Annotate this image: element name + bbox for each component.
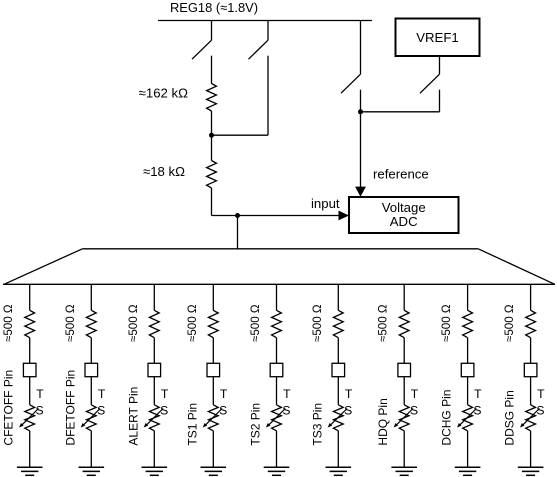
- wire node A to R2: [211, 135, 213, 160]
- resistor R3 value ~500 Ohm (CFETOFF): [25, 310, 35, 337]
- svg-text:≈500 Ω: ≈500 Ω: [127, 304, 140, 342]
- wire reference to ADC: [360, 112, 362, 187]
- pin label T (DDSG): [537, 387, 545, 401]
- svg-text:≈500 Ω: ≈500 Ω: [503, 304, 516, 342]
- wire mux fan-out left diagonal: [4, 249, 82, 284]
- resistor R9 value ~500 Ohm (HDQ): [399, 310, 409, 337]
- pin label T (TS2): [283, 387, 291, 401]
- svg-text:CFETOFF Pin: CFETOFF Pin: [2, 370, 16, 446]
- ground symbol (TS1): [201, 467, 227, 475]
- thermistor TS8 (DCHG): [457, 405, 476, 431]
- pin name label CFETOFF Pin: [2, 370, 16, 446]
- wire thermistor to ground (TS2): [276, 431, 278, 467]
- svg-text:≈500 Ω: ≈500 Ω: [440, 304, 453, 342]
- svg-text:T: T: [161, 387, 169, 401]
- block VREF1: [396, 19, 480, 57]
- pin label S (TS1): [219, 404, 227, 418]
- value label 500 Ohm (TS2): [249, 304, 262, 342]
- wire mux fan-out right diagonal: [478, 249, 555, 284]
- value label 500 Ohm (DCHG): [440, 304, 453, 342]
- svg-text:T: T: [220, 387, 228, 401]
- reference arrowhead: [355, 187, 366, 197]
- wire box to thermistor (HDQ): [403, 377, 405, 405]
- svg-text:HDQ Pin: HDQ Pin: [376, 398, 390, 445]
- thermistor TS3 (ALERT): [144, 405, 163, 431]
- wire box to thermistor (DCHG): [467, 377, 469, 405]
- wire bus to R11: [530, 284, 532, 310]
- svg-text:TS2 Pin: TS2 Pin: [249, 403, 263, 446]
- thermistor TS6 (TS3): [328, 405, 347, 431]
- wire R4 to box (DFETOFF): [90, 338, 92, 364]
- wire R3 to box (CFETOFF): [29, 338, 31, 364]
- wire R8 to box (TS3): [337, 338, 339, 364]
- wire box to thermistor (TS2): [276, 377, 278, 405]
- pin label S (DFETOFF): [97, 404, 105, 418]
- value label 500 Ohm (DDSG): [503, 304, 516, 342]
- ground symbol (TS2): [264, 467, 290, 475]
- svg-text:T: T: [537, 387, 545, 401]
- svg-text:reference: reference: [373, 167, 429, 182]
- pin label S (ALERT): [160, 404, 168, 418]
- value label 162 kOhm: [139, 86, 188, 101]
- pin label T (DCHG): [474, 387, 482, 401]
- resistor R1 value ~162 kOhm: [207, 84, 217, 112]
- wire SW4 leg to node C: [361, 111, 440, 113]
- box ESD cell (CFETOFF): [23, 363, 36, 376]
- svg-text:T: T: [411, 387, 419, 401]
- wire bus to R6: [212, 284, 214, 310]
- value label 500 Ohm (CFETOFF): [2, 304, 15, 342]
- svg-text:≈500 Ω: ≈500 Ω: [2, 304, 15, 342]
- svg-text:≈500 Ω: ≈500 Ω: [311, 304, 324, 342]
- value label 500 Ohm (DFETOFF): [64, 304, 77, 342]
- wire R5 to box (ALERT): [153, 338, 155, 364]
- svg-text:Voltage: Voltage: [382, 200, 426, 215]
- resistor R8 value ~500 Ohm (TS3): [333, 310, 343, 337]
- wire R2 to input line: [211, 188, 213, 216]
- resistor R6 value ~500 Ohm (TS1): [208, 310, 218, 337]
- pin label T (TS3): [345, 387, 353, 401]
- svg-text:T: T: [283, 387, 291, 401]
- value label 500 Ohm (TS1): [186, 304, 199, 342]
- svg-text:≈500 Ω: ≈500 Ω: [64, 304, 77, 342]
- svg-text:S: S: [344, 404, 352, 418]
- wire thermistor to ground (DFETOFF): [90, 431, 92, 467]
- svg-text:S: S: [36, 404, 44, 418]
- wire R9 to box (HDQ): [403, 338, 405, 364]
- svg-text:input: input: [311, 196, 340, 211]
- input arrowhead: [339, 211, 350, 221]
- svg-text:DCHG Pin: DCHG Pin: [440, 390, 454, 446]
- svg-text:ADC: ADC: [390, 214, 418, 229]
- svg-text:≈500 Ω: ≈500 Ω: [186, 304, 199, 342]
- block U1 Voltage ADC: [349, 197, 459, 233]
- value label 500 Ohm (HDQ): [377, 304, 390, 342]
- wire thermistor to ground (DDSG): [530, 431, 532, 467]
- wire R1 to node A: [211, 111, 213, 135]
- wire bus to R4: [90, 284, 92, 310]
- box ESD cell (DFETOFF): [85, 363, 98, 376]
- svg-text:TS3 Pin: TS3 Pin: [310, 403, 324, 446]
- node B junction (input to mux bus): [235, 213, 240, 218]
- switch SW1 (REG18 to 162k divider): [192, 21, 212, 60]
- wire R7 to box (TS2): [276, 338, 278, 364]
- wire bus to R5: [153, 284, 155, 310]
- pin label T (HDQ): [411, 387, 419, 401]
- wire thermistor to ground (DCHG): [467, 431, 469, 467]
- svg-text:S: S: [410, 404, 418, 418]
- svg-text:REG18 (≈1.8V): REG18 (≈1.8V): [170, 0, 258, 15]
- pin label T (ALERT): [161, 387, 169, 401]
- wire thermistor to ground (TS3): [337, 431, 339, 467]
- pin label S (DDSG): [536, 404, 544, 418]
- ground symbol (DFETOFF): [79, 467, 105, 475]
- net label REG18 (~1.8V): [170, 0, 258, 15]
- svg-text:VREF1: VREF1: [416, 30, 459, 45]
- svg-text:S: S: [282, 404, 290, 418]
- svg-text:≈162 kΩ: ≈162 kΩ: [139, 86, 188, 101]
- wire SW2 down: [267, 56, 269, 136]
- switch SW4 (VREF1 to reference node): [420, 74, 440, 93]
- pin name label TS1 Pin: [185, 403, 199, 446]
- pin label T (DFETOFF): [98, 387, 106, 401]
- svg-text:DFETOFF Pin: DFETOFF Pin: [63, 370, 77, 446]
- resistor R2 value ~18 kOhm: [207, 161, 217, 189]
- resistor R10 value ~500 Ohm (DCHG): [463, 310, 473, 337]
- wire thermistor to ground (ALERT): [153, 431, 155, 467]
- pin name label DDSG Pin: [503, 390, 517, 445]
- svg-text:≈500 Ω: ≈500 Ω: [377, 304, 390, 342]
- svg-text:S: S: [160, 404, 168, 418]
- wire thermistor to ground (HDQ): [403, 431, 405, 467]
- switch SW2 (REG18 second leg): [249, 21, 269, 60]
- wire node B to mux bus: [237, 216, 239, 249]
- pin name label TS2 Pin: [249, 403, 263, 446]
- box ESD cell (HDQ): [398, 363, 411, 376]
- pin label S (CFETOFF): [36, 404, 44, 418]
- svg-text:T: T: [474, 387, 482, 401]
- svg-text:S: S: [473, 404, 481, 418]
- pin label T (CFETOFF): [36, 387, 44, 401]
- wire SW3 to node C: [360, 90, 362, 112]
- wire box to thermistor (CFETOFF): [29, 377, 31, 405]
- svg-text:S: S: [536, 404, 544, 418]
- resistor R4 value ~500 Ohm (DFETOFF): [86, 310, 96, 337]
- pin name label TS3 Pin: [310, 403, 324, 446]
- pin label T (TS1): [220, 387, 228, 401]
- svg-text:T: T: [36, 387, 44, 401]
- wire mux fan-out top edge: [82, 248, 478, 250]
- thermistor TS5 (TS2): [266, 405, 285, 431]
- box ESD cell (TS2): [270, 363, 283, 376]
- wire mux bus bottom edge: [3, 283, 555, 285]
- pin name label ALERT Pin: [126, 387, 140, 446]
- ground symbol (HDQ): [391, 467, 417, 475]
- wire box to thermistor (DDSG): [530, 377, 532, 405]
- wire box to thermistor (ALERT): [153, 377, 155, 405]
- svg-text:T: T: [98, 387, 106, 401]
- wire VREF1 to switch SW4: [439, 56, 441, 74]
- pin name label HDQ Pin: [376, 398, 390, 445]
- wire R6 to box (TS1): [212, 338, 214, 364]
- thermistor TS9 (DDSG): [520, 405, 539, 431]
- wire box to thermistor (TS3): [337, 377, 339, 405]
- box ESD cell (DDSG): [524, 363, 537, 376]
- resistor R5 value ~500 Ohm (ALERT): [149, 310, 159, 337]
- wire bus to R9: [403, 284, 405, 310]
- svg-text:TS1 Pin: TS1 Pin: [185, 403, 199, 446]
- svg-text:S: S: [219, 404, 227, 418]
- svg-text:ALERT Pin: ALERT Pin: [126, 387, 140, 446]
- net label reference: [373, 167, 429, 182]
- node C junction (reference): [358, 109, 363, 114]
- thermistor TS1 (CFETOFF): [19, 405, 38, 431]
- svg-text:T: T: [345, 387, 353, 401]
- ground symbol (CFETOFF): [17, 467, 43, 475]
- wire bus to R3: [29, 284, 31, 310]
- box ESD cell (TS3): [332, 363, 345, 376]
- pin label S (DCHG): [473, 404, 481, 418]
- svg-text:≈18 kΩ: ≈18 kΩ: [143, 164, 185, 179]
- wire R11 to box (DDSG): [530, 338, 532, 364]
- net label input: [311, 196, 340, 211]
- wire R10 to box (DCHG): [467, 338, 469, 364]
- box ESD cell (ALERT): [148, 363, 161, 376]
- value label 500 Ohm (TS3): [311, 304, 324, 342]
- wire input line to ADC: [212, 215, 340, 217]
- svg-text:S: S: [97, 404, 105, 418]
- pin label S (TS2): [282, 404, 290, 418]
- wire SW1 to R1: [211, 56, 213, 84]
- switch SW3 (REG18 to reference node): [341, 21, 361, 94]
- wire SW2 leg to node A: [212, 134, 269, 136]
- pin label S (TS3): [344, 404, 352, 418]
- thermistor TS4 (TS1): [203, 405, 222, 431]
- wire bus to R10: [467, 284, 469, 310]
- thermistor TS2 (DFETOFF): [81, 405, 100, 431]
- ground symbol (ALERT): [142, 467, 168, 475]
- box ESD cell (DCHG): [461, 363, 474, 376]
- wire REG18 rail: [158, 20, 372, 22]
- pin name label DCHG Pin: [440, 390, 454, 446]
- thermistor TS7 (HDQ): [394, 405, 413, 431]
- value label 18 kOhm: [143, 164, 185, 179]
- pin name label DFETOFF Pin: [63, 370, 77, 446]
- wire bus to R7: [276, 284, 278, 310]
- ground symbol (DDSG): [518, 467, 544, 475]
- resistor R11 value ~500 Ohm (DDSG): [526, 310, 536, 337]
- box ESD cell (TS1): [207, 363, 220, 376]
- resistor R7 value ~500 Ohm (TS2): [272, 310, 282, 337]
- value label 500 Ohm (ALERT): [127, 304, 140, 342]
- svg-text:DDSG Pin: DDSG Pin: [503, 390, 517, 445]
- wire bus to R8: [337, 284, 339, 310]
- svg-text:≈500 Ω: ≈500 Ω: [249, 304, 262, 342]
- wire thermistor to ground (CFETOFF): [29, 431, 31, 467]
- wire thermistor to ground (TS1): [212, 431, 214, 467]
- wire box to thermistor (DFETOFF): [90, 377, 92, 405]
- wire SW4 down: [439, 90, 441, 112]
- wire box to thermistor (TS1): [212, 377, 214, 405]
- ground symbol (TS3): [326, 467, 352, 475]
- node A junction: [209, 133, 214, 138]
- pin label S (HDQ): [410, 404, 418, 418]
- ground symbol (DCHG): [455, 467, 481, 475]
